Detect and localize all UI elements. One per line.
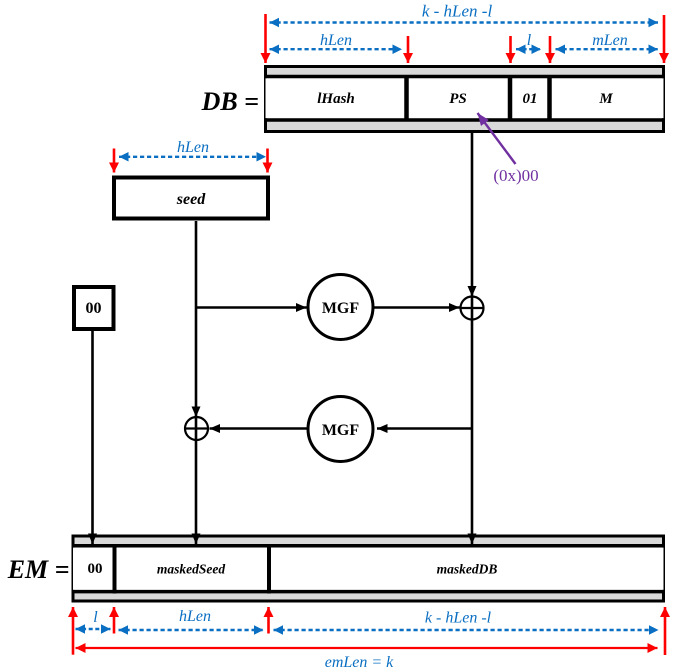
svg-text:seed: seed [176, 191, 206, 208]
svg-text:maskedDB: maskedDB [437, 562, 498, 577]
svg-text:k - hLen -l: k - hLen -l [422, 2, 493, 21]
svg-text:emLen = k: emLen = k [325, 654, 394, 671]
svg-text:MGF: MGF [322, 422, 360, 439]
svg-text:hLen: hLen [179, 608, 211, 625]
svg-text:01: 01 [523, 91, 538, 107]
svg-text:PS: PS [449, 91, 467, 107]
svg-text:EM =: EM = [7, 555, 70, 584]
svg-text:l: l [93, 609, 98, 626]
svg-text:lHash: lHash [317, 91, 355, 107]
svg-text:mLen: mLen [592, 32, 628, 49]
svg-text:l: l [527, 32, 532, 49]
svg-text:M: M [598, 91, 613, 107]
svg-text:00: 00 [88, 561, 103, 577]
svg-text:00: 00 [86, 300, 102, 317]
svg-text:(0x)00: (0x)00 [493, 166, 538, 185]
svg-text:DB =: DB = [201, 87, 259, 116]
svg-text:hLen: hLen [320, 32, 352, 49]
svg-text:MGF: MGF [322, 300, 360, 317]
svg-text:k - hLen -l: k - hLen -l [425, 610, 492, 627]
svg-text:hLen: hLen [177, 139, 209, 156]
svg-text:maskedSeed: maskedSeed [157, 562, 225, 577]
